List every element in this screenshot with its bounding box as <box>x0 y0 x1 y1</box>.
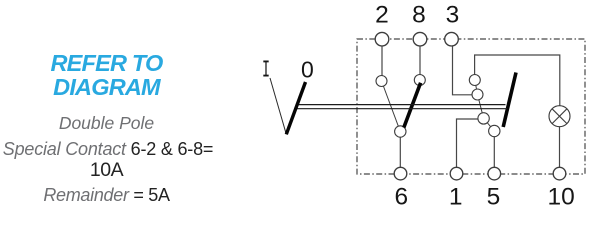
switch blade pole 1 <box>404 83 421 128</box>
note Special Contact 6-2 & 6-8= 10A <box>0 139 216 160</box>
contact circle pole2 third <box>478 113 489 124</box>
wire contact to terminal 5 <box>493 136 495 168</box>
wire contact to terminal 1 <box>457 119 479 168</box>
wire terminal 8 to contact <box>419 45 421 75</box>
terminal 8 <box>413 32 427 46</box>
svg-text:3: 3 <box>446 2 460 29</box>
wire common to terminal 6 <box>399 137 401 169</box>
lamp <box>549 106 570 127</box>
wire lamp to terminal 10 <box>559 127 561 169</box>
svg-text:10: 10 <box>547 184 574 208</box>
common contact circle pole1 <box>395 126 406 137</box>
contact circle pole2 upper <box>469 75 480 86</box>
terminal 10 <box>553 167 566 180</box>
actuator lever thick arm (position 0) <box>286 82 305 134</box>
terminal 5 <box>488 167 501 180</box>
note Remainder = 5A <box>0 185 213 206</box>
svg-text:6: 6 <box>394 184 408 208</box>
terminal 3 <box>445 32 459 46</box>
contact link pole 2 <box>475 80 495 131</box>
svg-text:I: I <box>262 58 270 85</box>
contact circle pole1 under terminal 2 <box>376 76 387 87</box>
svg-text:2: 2 <box>375 2 389 29</box>
wire terminal 2 to contact <box>381 45 383 76</box>
wire contact to lamp <box>475 55 560 106</box>
contact circle pole2 second <box>472 89 483 100</box>
note REFER TO DIAGRAM heading <box>0 52 213 100</box>
switch body outline (dash-dot box) <box>357 39 585 174</box>
contact link pole 1 <box>382 81 401 132</box>
terminal 1 <box>450 167 463 180</box>
terminal 2 <box>375 32 389 46</box>
wire terminal 3 to contact <box>453 45 472 95</box>
switch blade pole 2 <box>503 73 516 128</box>
svg-text:8: 8 <box>412 2 426 29</box>
contact circle pole1 under terminal 8 <box>414 75 425 86</box>
svg-text:5: 5 <box>487 184 501 208</box>
actuator lever thin arm (position I) <box>270 78 286 134</box>
actuator bar (double line) <box>297 105 507 109</box>
note Double Pole <box>0 113 213 134</box>
svg-text:1: 1 <box>449 184 463 208</box>
terminal 6 <box>394 167 407 180</box>
svg-text:0: 0 <box>301 57 314 83</box>
common contact circle pole2 <box>489 125 500 136</box>
